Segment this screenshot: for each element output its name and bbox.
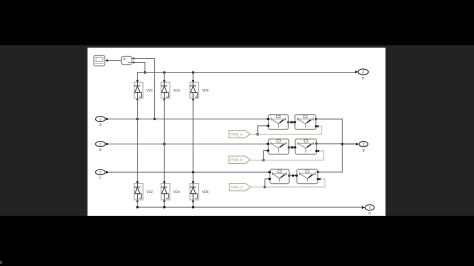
svg-text:VD6: VD6 xyxy=(202,190,209,194)
phase B wire xyxy=(109,143,266,145)
arrow into port m xyxy=(356,143,359,146)
arrow into driver PWM_C input 1 xyxy=(267,171,270,174)
svg-text:1: 1 xyxy=(363,142,365,146)
svg-text:VD2: VD2 xyxy=(146,190,153,194)
pulse driver block PWM_B B xyxy=(294,139,317,154)
svg-text:2: 2 xyxy=(99,142,101,146)
pulse tag From PWM_B xyxy=(229,156,251,163)
wire U1 + to phase A tap xyxy=(134,58,154,119)
arrow into output port P xyxy=(355,70,358,73)
input port C oval xyxy=(96,170,106,180)
white schematic canvas xyxy=(88,48,386,216)
arrow into U1 port + xyxy=(132,57,134,59)
wire tag PWM_C to branch node xyxy=(251,178,325,188)
pulse driver block PWM_A B xyxy=(294,115,317,130)
thyristor VD4 xyxy=(161,181,180,207)
wire driver PWM_B output xyxy=(316,143,356,145)
pulse tag From PWM_C xyxy=(229,183,251,190)
node on DC+ bus xyxy=(144,71,146,73)
svg-text:g: g xyxy=(363,148,365,152)
arrow from port B xyxy=(106,143,109,146)
wire join to port m xyxy=(342,143,356,145)
wire driver PWM_C output xyxy=(318,171,343,173)
input port A oval xyxy=(96,116,106,126)
node phase B / VD3 column xyxy=(163,143,165,145)
thyristor VD6 xyxy=(190,181,209,207)
svg-text:VD1: VD1 xyxy=(146,89,153,93)
wire driver PWM_B A to B xyxy=(289,146,295,149)
output port N oval xyxy=(365,205,374,216)
node VD6 on DC- bus xyxy=(192,206,194,208)
arrow into scope input xyxy=(105,59,108,62)
DC+ bus wire xyxy=(137,72,355,74)
wire driver PWM_A output xyxy=(316,118,342,120)
svg-text:1: 1 xyxy=(99,117,101,121)
svg-text:VD3: VD3 xyxy=(173,89,180,93)
svg-text:PWM_A: PWM_A xyxy=(231,132,244,136)
pulse driver block PWM_A A xyxy=(267,115,289,130)
node tap on phase A xyxy=(154,118,156,120)
output port m oval xyxy=(359,142,368,152)
pulse driver block PWM_C B xyxy=(296,169,319,183)
pulse driver block PWM_C A xyxy=(269,169,290,183)
voltage measurement block U1 xyxy=(121,56,131,64)
thyristor VD1 xyxy=(134,73,153,182)
phase C wire xyxy=(109,171,267,173)
pulse tag From PWM_A xyxy=(229,130,251,137)
node VD5 bus xyxy=(192,71,194,73)
node phase C / VD5 column xyxy=(192,171,194,173)
thyristor VD5 xyxy=(190,73,209,182)
scope block Scope1 xyxy=(94,55,105,66)
svg-text:B: B xyxy=(99,148,101,152)
thyristor VD3 xyxy=(161,73,180,182)
thyristor VD2 xyxy=(134,181,153,207)
node output join xyxy=(341,143,343,145)
phase A wire xyxy=(109,118,266,120)
wire driver PWM_C A to B xyxy=(289,174,297,177)
arrow into U1 port - xyxy=(132,61,134,63)
node VD2 on DC- bus xyxy=(136,206,138,208)
svg-text:PWM_C: PWM_C xyxy=(231,185,244,189)
arrow from port A xyxy=(106,118,109,121)
wire U1 - to DC+ bus xyxy=(134,62,145,72)
DC- bus wire xyxy=(137,206,362,208)
svg-text:2: 2 xyxy=(362,70,364,74)
arrow into driver PWM_A input 1 xyxy=(266,118,269,121)
arrow into output port N xyxy=(362,206,365,209)
wire driver PWM_A A to B xyxy=(288,121,295,124)
svg-text:PWM_B: PWM_B xyxy=(231,158,243,162)
svg-text:3: 3 xyxy=(99,171,101,175)
wire tag PWM_A to branch node xyxy=(250,125,321,136)
node VD4 on DC- bus xyxy=(163,206,165,208)
node phase A / VD1 column xyxy=(136,118,138,120)
svg-text:3: 3 xyxy=(369,206,371,210)
node VD3 bus xyxy=(163,71,165,73)
pulse driver block PWM_B A xyxy=(267,139,290,154)
output join vertical wire xyxy=(341,119,343,172)
svg-text:VD5: VD5 xyxy=(202,89,209,93)
input port B oval xyxy=(96,141,106,151)
wire scope to voltage measurement xyxy=(108,60,121,62)
arrow into driver PWM_B input 1 xyxy=(266,143,269,146)
output port P oval xyxy=(358,69,368,81)
wire tag PWM_B to branch node xyxy=(250,149,323,161)
svg-text:VD4: VD4 xyxy=(173,190,180,194)
arrow from port C xyxy=(106,171,109,174)
